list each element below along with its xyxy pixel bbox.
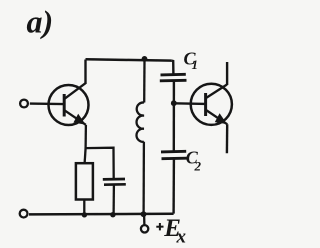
- node resistor/rail: [82, 212, 87, 217]
- wire C2 bottom lead: [172, 159, 175, 214]
- svg-text:2: 2: [194, 158, 202, 173]
- capacitor C3 (emitter bypass): [103, 179, 126, 185]
- wire resistor bottom lead: [83, 200, 85, 215]
- wire emitter junction to resistor: [85, 148, 86, 164]
- wire C1 top corner lead: [172, 61, 174, 74]
- output terminal (bottom-left open circle): [20, 210, 28, 218]
- transistor Q2: [191, 84, 232, 125]
- node top rail / inductor junction: [142, 56, 148, 62]
- wire Q2 collector stub up: [226, 62, 228, 85]
- wire Q1 emitter down: [84, 125, 87, 148]
- svg-text:1: 1: [192, 57, 199, 72]
- svg-text:a): a): [27, 4, 54, 40]
- wire Q2 emitter stub down: [226, 124, 229, 153]
- capacitor C2: [161, 151, 187, 158]
- value label +Ek: [156, 223, 163, 230]
- node bypass cap/rail: [110, 212, 115, 217]
- wire input to Q1 base: [30, 102, 64, 105]
- node inductor/rail: [141, 211, 147, 217]
- power terminal +Ek (open circle): [141, 225, 148, 232]
- svg-text:x: x: [176, 227, 187, 248]
- wire bypass cap bottom lead: [112, 185, 115, 215]
- input terminal (left open circle): [20, 100, 28, 108]
- wire base of Q2: [174, 102, 205, 105]
- node base junction of Q2: [171, 100, 177, 106]
- wire bottom rail: [29, 213, 174, 216]
- wire C1 bottom to C2 top: [173, 81, 175, 151]
- wire Q1 collector up: [84, 60, 86, 85]
- wire inductor top lead: [143, 59, 146, 103]
- inductor L1 coil: [136, 102, 144, 141]
- wire emitter branch right: [86, 148, 114, 179]
- wire Ek terminal stub: [143, 215, 146, 225]
- capacitor C1: [160, 74, 187, 81]
- wire inductor bottom lead: [142, 142, 145, 214]
- wire top rail: [86, 59, 172, 60]
- transistor Q1: [49, 83, 89, 125]
- resistor R1: [76, 163, 93, 199]
